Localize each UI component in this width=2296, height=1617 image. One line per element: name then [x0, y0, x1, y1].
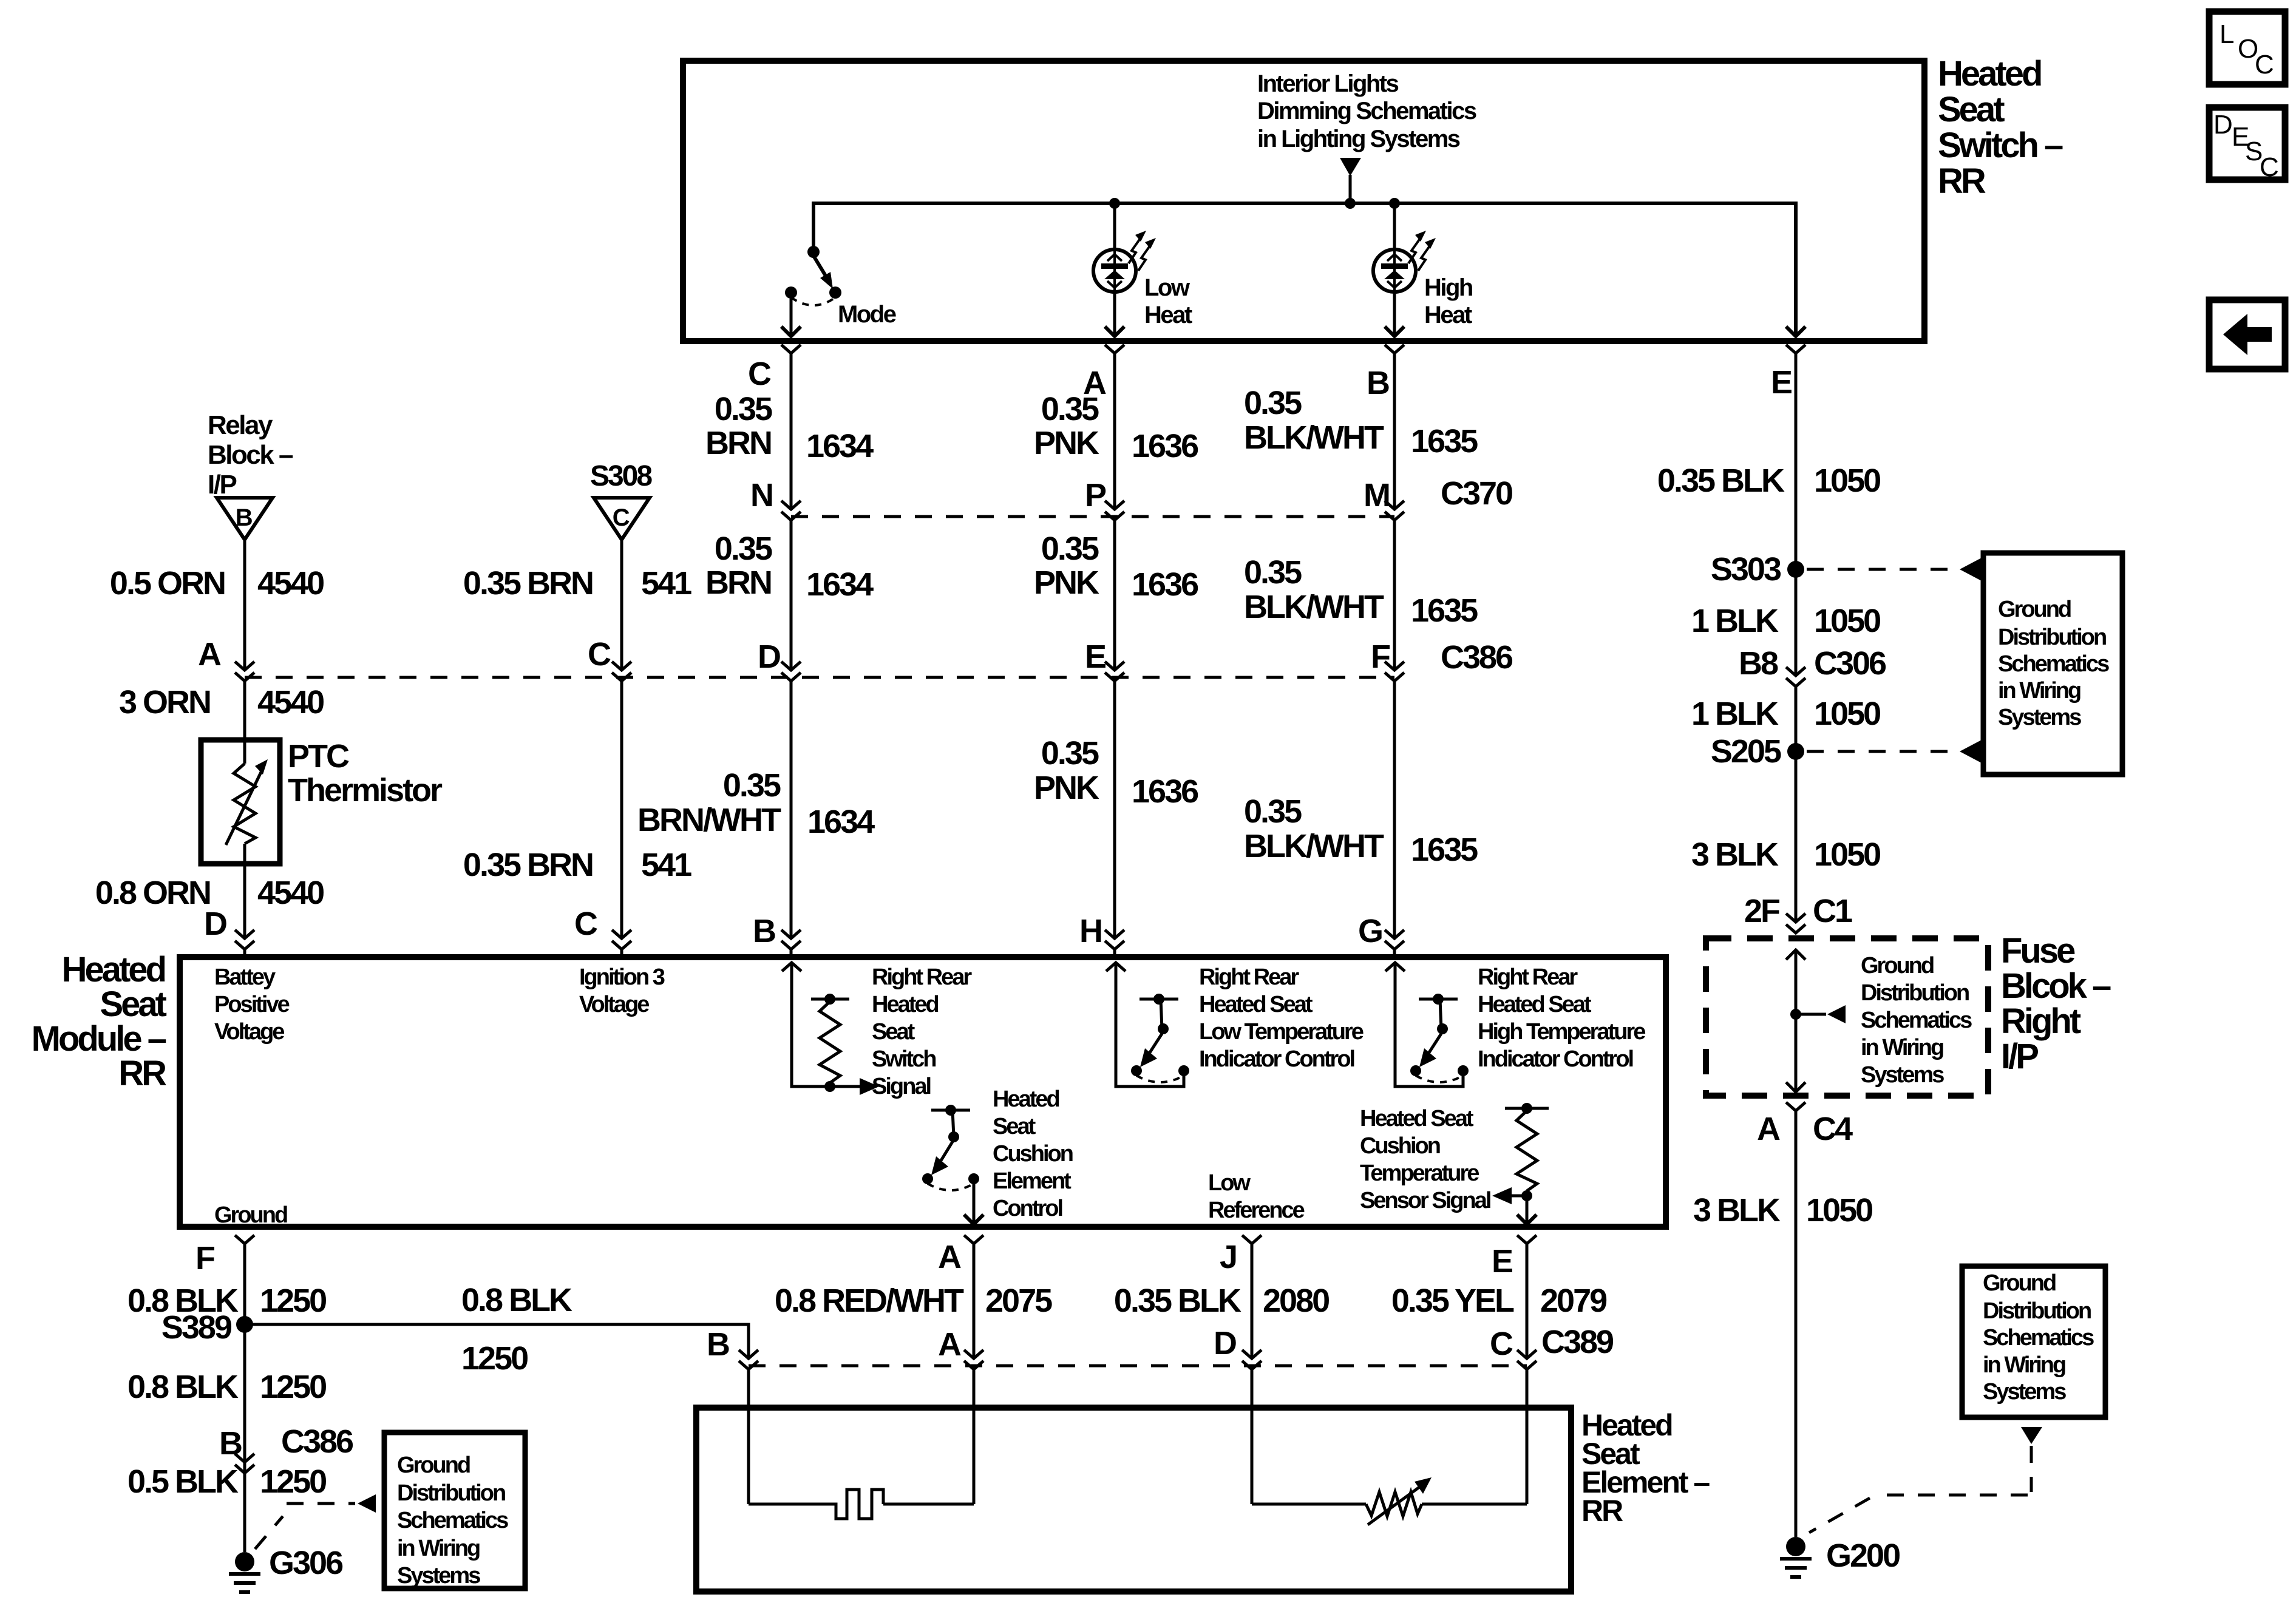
svg-text:Heated: Heated: [872, 992, 938, 1017]
label: Low Heat: [1144, 274, 1192, 328]
pin B8 label at C306: [1739, 645, 1886, 682]
label: 0.35 BLK / 1050: [1657, 463, 1880, 499]
svg-text:1050: 1050: [1814, 696, 1880, 732]
ground distribution schematics box lower left: [384, 1432, 525, 1588]
switch: cushion element control: [922, 1105, 979, 1190]
connector C386 pin F: [1385, 662, 1404, 681]
svg-text:Right Rear: Right Rear: [872, 964, 972, 990]
label: Relay Block - I/P: [208, 410, 293, 500]
wire: element control to pin A with arrow: [964, 1179, 983, 1224]
svg-text:D: D: [758, 639, 780, 675]
svg-text:0.35: 0.35: [1041, 531, 1099, 567]
svg-text:0.35 BLK: 0.35 BLK: [1114, 1283, 1241, 1319]
svg-text:1250: 1250: [260, 1463, 326, 1500]
svg-text:Heated Seat: Heated Seat: [1360, 1106, 1474, 1131]
svg-text:Heat: Heat: [1144, 302, 1192, 328]
svg-text:BLK/WHT: BLK/WHT: [1244, 589, 1384, 625]
dashed reference from S205: [1807, 740, 1982, 763]
label: 0.35 PNK / 1636: [1034, 735, 1198, 810]
svg-text:S303: S303: [1711, 551, 1781, 588]
splice S308 off-page triangle pin C: [594, 498, 650, 540]
svg-text:S308: S308: [590, 460, 652, 492]
dashed reference from G306: [255, 1494, 376, 1549]
svg-text:Seat: Seat: [100, 985, 166, 1024]
label: 3 ORN / 4540: [119, 684, 324, 720]
svg-text:C386: C386: [1441, 639, 1513, 676]
svg-text:G: G: [1358, 913, 1382, 949]
svg-text:in Wiring: in Wiring: [1998, 678, 2080, 703]
label: 0.5 BLK / 1250: [127, 1463, 326, 1500]
label: 0.35 BRN / 1634: [705, 391, 874, 464]
label: 0.35 PNK / 1636: [1034, 391, 1198, 464]
heating element symbol: [749, 1490, 883, 1519]
svg-text:Positive: Positive: [214, 992, 290, 1017]
wire: 0.35 BLK 1050 (E to S303): [1795, 353, 1798, 569]
svg-text:Indicator Control: Indicator Control: [1199, 1046, 1354, 1072]
svg-text:Cushion: Cushion: [993, 1141, 1073, 1167]
wire: 0.8 BLK 1250 to element B: [245, 1324, 749, 1357]
svg-text:PTC: PTC: [288, 738, 349, 775]
connector module pin B: [781, 930, 801, 957]
svg-text:RR: RR: [1938, 161, 1986, 201]
svg-text:0.35: 0.35: [715, 391, 772, 427]
svg-text:Right Rear: Right Rear: [1478, 964, 1578, 990]
svg-text:Distribution: Distribution: [1861, 980, 1969, 1006]
svg-text:3 BLK: 3 BLK: [1693, 1192, 1781, 1229]
pin B fork below switch box: [1385, 345, 1404, 353]
svg-text:Module –: Module –: [32, 1019, 166, 1059]
svg-text:0.35: 0.35: [1041, 735, 1099, 771]
svg-text:1050: 1050: [1814, 463, 1880, 499]
PTC thermistor box: [201, 740, 280, 864]
svg-text:Systems: Systems: [1998, 705, 2081, 730]
wire: 0.35 BRN/WHT 1634 (D to B): [790, 681, 793, 938]
svg-text:2075: 2075: [985, 1283, 1052, 1319]
svg-text:0.35 BLK: 0.35 BLK: [1657, 463, 1785, 499]
svg-text:Heat: Heat: [1424, 302, 1472, 328]
svg-text:Seat: Seat: [993, 1114, 1036, 1139]
mode switch contact left: [785, 286, 797, 299]
wire: element left circuit: [749, 1408, 974, 1504]
wire: 0.35 PNK 1636 (E to H): [1113, 681, 1116, 938]
connector C386 dashed line: [245, 676, 1394, 679]
connector C4 fork below fuse block: [1786, 1102, 1805, 1537]
pin C fork below switch box: [781, 345, 801, 353]
wire: 0.35 BRN/WHT 1634 label / 0.35 BRN 541 lower: [620, 681, 623, 938]
pin E fork below module: [1517, 1235, 1537, 1357]
LED high heat light rays: [1408, 231, 1436, 271]
svg-text:Seat: Seat: [1938, 90, 2005, 129]
svg-text:4540: 4540: [257, 875, 324, 911]
label: Low Reference: [1208, 1170, 1305, 1223]
connector module pin G: [1385, 930, 1404, 957]
svg-text:Voltage: Voltage: [579, 992, 649, 1017]
svg-text:4540: 4540: [257, 684, 324, 720]
pin F fork below module: [235, 1235, 254, 1552]
svg-text:Ground: Ground: [214, 1202, 287, 1228]
svg-text:RR: RR: [118, 1054, 166, 1093]
wire: 0.35 PNK 1636 (P to E): [1113, 520, 1116, 670]
LED high heat: [1373, 203, 1416, 336]
svg-text:J: J: [1220, 1239, 1236, 1275]
svg-text:Ground: Ground: [397, 1453, 470, 1478]
arrow: sensor signal pointer: [1492, 1187, 1527, 1204]
svg-text:1250: 1250: [461, 1340, 528, 1377]
heated seat switch RR box: [683, 61, 1924, 341]
svg-text:Interior Lights: Interior Lights: [1257, 70, 1399, 97]
heated seat module RR box: [180, 957, 1666, 1227]
dashed reference to G200: [1809, 1446, 2031, 1533]
label: 1 BLK / 1050: [1691, 603, 1880, 639]
svg-text:Distribution: Distribution: [1998, 625, 2106, 650]
svg-text:BLK/WHT: BLK/WHT: [1244, 828, 1384, 864]
svg-text:High: High: [1424, 274, 1472, 301]
svg-text:1 BLK: 1 BLK: [1691, 603, 1779, 639]
svg-text:C: C: [613, 504, 630, 531]
relay block off-page triangle pin B: [217, 498, 273, 540]
svg-text:BRN/WHT: BRN/WHT: [637, 802, 781, 838]
svg-text:G200: G200: [1826, 1537, 1900, 1574]
svg-text:C: C: [748, 356, 771, 392]
label: 0.5 ORN / 4540: [110, 565, 324, 602]
label: 0.35 BLK/WHT / 1635: [1244, 385, 1478, 459]
DESC legend box: [2209, 107, 2285, 182]
svg-text:0.5 ORN: 0.5 ORN: [110, 565, 225, 602]
svg-text:1050: 1050: [1814, 836, 1880, 873]
wire: switch internal bus: [813, 203, 1796, 335]
svg-text:1050: 1050: [1814, 603, 1880, 639]
svg-text:PNK: PNK: [1034, 564, 1099, 601]
label: 0.35 BRN/WHT / 1634: [637, 767, 875, 840]
svg-text:Dimming Schematics: Dimming Schematics: [1257, 98, 1476, 124]
splice S205: [1711, 733, 1804, 770]
label: 0.8 BLK / 1250 horizontal: [461, 1282, 572, 1377]
svg-text:Thermistor: Thermistor: [288, 772, 443, 808]
svg-text:B: B: [236, 504, 253, 531]
svg-text:Schematics: Schematics: [397, 1508, 508, 1533]
label: 0.35 BLK/WHT / 1635: [1244, 554, 1478, 629]
svg-text:Ground: Ground: [1983, 1270, 2056, 1296]
svg-text:Schematics: Schematics: [1998, 651, 2109, 677]
svg-text:C: C: [588, 636, 611, 673]
wire: 0.35 BRN 541 upper: [620, 540, 623, 670]
node: fuse block junction: [1790, 1005, 1846, 1023]
svg-text:Heated Seat: Heated Seat: [1199, 992, 1313, 1017]
mode switch contact right: [829, 286, 841, 299]
connector C389 pin D: [1242, 1350, 1262, 1408]
wire: 0.35 BLK/WHT 1635 (B to C370): [1393, 353, 1396, 509]
svg-text:Block –: Block –: [208, 440, 293, 470]
pin J fork below module: [1242, 1235, 1262, 1357]
switch: high temperature indicator control: [1410, 994, 1469, 1082]
svg-text:C1: C1: [1813, 893, 1852, 929]
svg-text:0.35: 0.35: [1041, 391, 1099, 427]
svg-text:D: D: [2213, 110, 2233, 140]
heated seat element RR box: [696, 1408, 1571, 1592]
svg-text:Heated: Heated: [62, 950, 165, 989]
svg-text:F: F: [195, 1240, 215, 1276]
svg-text:F: F: [1371, 639, 1390, 675]
svg-text:2080: 2080: [1263, 1283, 1329, 1319]
svg-text:1635: 1635: [1411, 592, 1478, 629]
svg-text:541: 541: [641, 847, 691, 883]
pin A fork below module: [964, 1235, 983, 1357]
svg-text:E: E: [1492, 1243, 1512, 1280]
svg-text:1635: 1635: [1411, 423, 1478, 459]
svg-text:0.35 YEL: 0.35 YEL: [1391, 1283, 1514, 1319]
label: 3 BLK / 1050 lower: [1693, 1192, 1872, 1229]
wire: 3 BLK 1050 (S205 to C1): [1795, 751, 1798, 922]
connector C386 pin E: [1105, 662, 1124, 681]
label: 0.35 BRN / 1634: [705, 531, 874, 603]
splice S389: [161, 1309, 253, 1346]
connector C370 dashed line: [791, 515, 1394, 518]
svg-text:Indicator Control: Indicator Control: [1478, 1046, 1633, 1072]
wire: inside fuse block with arrows: [1786, 950, 1805, 1092]
label: Ground Distribution Schematics in Wiring Systems (fuse box): [1861, 953, 1972, 1088]
svg-text:Heated: Heated: [993, 1086, 1059, 1112]
connector module pin C: [612, 930, 631, 957]
connector C389 pin C: [1517, 1350, 1537, 1408]
svg-text:Systems: Systems: [397, 1563, 480, 1588]
svg-text:BLK/WHT: BLK/WHT: [1244, 419, 1384, 456]
svg-text:2F: 2F: [1744, 893, 1780, 929]
svg-text:Systems: Systems: [1861, 1062, 1944, 1088]
wire: 0.8 ORN 4540: [243, 844, 246, 938]
svg-text:Switch –: Switch –: [1938, 126, 2063, 165]
label: 0.35 BRN / 541: [463, 565, 691, 602]
label: 0.8 BLK / 1250 lower: [127, 1369, 326, 1405]
wire: pin G internal with up arrow: [1385, 963, 1463, 1086]
wire: element right circuit: [1252, 1408, 1527, 1504]
svg-text:in Wiring: in Wiring: [397, 1536, 480, 1561]
pin 2F label at C1: [1744, 893, 1852, 929]
svg-text:High Temperature: High Temperature: [1478, 1019, 1645, 1045]
switch: low temperature indicator control: [1131, 994, 1189, 1082]
svg-text:A: A: [198, 636, 221, 673]
svg-text:Switch: Switch: [872, 1046, 936, 1072]
LED low heat light rays: [1129, 231, 1156, 271]
wire: sensor to pin E with arrow: [1517, 1196, 1537, 1224]
svg-text:H: H: [1079, 913, 1101, 949]
wire: 0.35 BRN 1634 (C to C370): [790, 353, 793, 509]
svg-text:Right: Right: [2001, 1002, 2081, 1041]
wire: pin B internal with up arrow: [782, 963, 861, 1086]
node: bus junction high heat: [1389, 198, 1400, 209]
label: Interior Lights Dimming Schematics in Lighting Systems: [1257, 70, 1476, 152]
svg-text:C370: C370: [1441, 475, 1512, 512]
svg-text:Ground: Ground: [1998, 597, 2071, 622]
svg-text:C: C: [2255, 50, 2274, 80]
svg-text:1050: 1050: [1806, 1192, 1872, 1229]
connector C370 pin M: [1385, 501, 1404, 520]
label: PTC Thermistor: [288, 738, 443, 808]
svg-text:B: B: [707, 1326, 729, 1363]
svg-text:D: D: [204, 906, 226, 942]
svg-text:N: N: [750, 477, 772, 514]
svg-text:A: A: [1757, 1111, 1780, 1147]
svg-text:0.35: 0.35: [723, 767, 781, 804]
label: 0.8 BLK / 1250 upper: [127, 1283, 326, 1319]
svg-text:1635: 1635: [1411, 832, 1478, 868]
svg-text:Cushion: Cushion: [1360, 1133, 1440, 1159]
connector module pin H: [1105, 930, 1124, 957]
label: 0.8 ORN / 4540: [95, 875, 324, 911]
svg-text:Relay: Relay: [208, 410, 273, 440]
svg-text:I/P: I/P: [208, 470, 236, 500]
variable resistor: element thermistor: [1366, 1477, 1432, 1525]
svg-text:Distribution: Distribution: [1983, 1298, 2091, 1324]
svg-text:Seat: Seat: [872, 1019, 915, 1045]
svg-text:0.35 BRN: 0.35 BRN: [463, 565, 593, 602]
svg-text:PNK: PNK: [1034, 425, 1099, 461]
label: Right Rear Heated Seat Switch Signal: [872, 964, 972, 1099]
svg-text:1634: 1634: [807, 804, 875, 840]
svg-text:E: E: [1771, 364, 1792, 401]
svg-text:Schematics: Schematics: [1861, 1008, 1972, 1033]
connector C386 pin D: [781, 662, 801, 681]
svg-text:1634: 1634: [806, 428, 874, 464]
svg-text:Blcok –: Blcok –: [2001, 966, 2111, 1006]
label: 0.35 BLK / 2080: [1114, 1283, 1329, 1319]
resistor: cushion temperature sensor: [1505, 1103, 1549, 1201]
connector C389 pin B: [739, 1350, 758, 1408]
svg-text:0.35: 0.35: [715, 531, 772, 567]
svg-text:Right Rear: Right Rear: [1199, 964, 1299, 990]
svg-text:in Wiring: in Wiring: [1861, 1035, 1943, 1060]
svg-text:Fuse: Fuse: [2001, 931, 2075, 971]
label: Right Rear Heated Seat High Temperature Indicator Control: [1478, 964, 1645, 1072]
label: Right Rear Heated Seat Low Temperature Indicator Control: [1199, 964, 1364, 1072]
label: 1 BLK / 1050: [1691, 696, 1880, 732]
svg-text:3 ORN: 3 ORN: [119, 684, 210, 720]
svg-text:C: C: [1490, 1326, 1513, 1362]
svg-text:Heated Seat: Heated Seat: [1478, 992, 1592, 1017]
resistor: heated seat switch signal: [811, 994, 849, 1092]
ground G306: [229, 1545, 343, 1592]
svg-text:Ignition 3: Ignition 3: [579, 964, 665, 990]
svg-text:Reference: Reference: [1208, 1198, 1305, 1223]
wire: 0.35 BLK/WHT 1635 (M to F): [1393, 520, 1396, 670]
mode switch pivot: [807, 246, 820, 258]
svg-text:1250: 1250: [260, 1283, 326, 1319]
svg-text:Low: Low: [1208, 1170, 1251, 1196]
label: Heated Seat Switch - RR: [1938, 54, 2063, 201]
label: 0.35 PNK / 1636: [1034, 531, 1198, 603]
svg-text:Control: Control: [993, 1196, 1062, 1221]
svg-text:A: A: [938, 1326, 961, 1363]
svg-text:M: M: [1364, 477, 1389, 514]
svg-text:Voltage: Voltage: [214, 1019, 284, 1045]
svg-text:0.35: 0.35: [1244, 793, 1302, 830]
connector C370 pin P: [1105, 501, 1124, 520]
svg-text:C: C: [574, 906, 597, 942]
svg-text:Low: Low: [1144, 274, 1190, 301]
wire: 0.35 PNK 1636 (A to C370): [1113, 353, 1116, 509]
pin E fork below switch box: [1786, 345, 1805, 353]
svg-text:PNK: PNK: [1034, 770, 1099, 806]
svg-text:Schematics: Schematics: [1983, 1325, 2094, 1351]
splice S303: [1711, 551, 1804, 588]
pin A fork below switch box: [1105, 345, 1124, 353]
connector C386 pin C: [612, 662, 631, 681]
svg-text:0.8 RED/WHT: 0.8 RED/WHT: [775, 1283, 964, 1319]
wire: pin H internal with up arrow: [1106, 963, 1184, 1086]
fuse block right I/P dashed box: [1706, 938, 1988, 1096]
connector C386 pin A: [235, 662, 254, 681]
node: bus junction at dimmer: [1345, 198, 1356, 209]
label: Heated Seat Module - RR: [32, 950, 167, 1093]
svg-text:0.5 BLK: 0.5 BLK: [127, 1463, 239, 1500]
wire: bus down to pin E arrow: [1786, 327, 1805, 336]
svg-text:Heated: Heated: [1938, 54, 2041, 93]
svg-text:C389: C389: [1541, 1324, 1614, 1360]
label: Battey Positive Voltage: [214, 964, 290, 1045]
svg-text:Battey: Battey: [214, 964, 276, 990]
wire: 0.5 ORN 4540: [243, 540, 246, 670]
svg-text:D: D: [1214, 1325, 1236, 1361]
ground distribution schematics box right: [1983, 553, 2122, 775]
svg-text:Distribution: Distribution: [397, 1480, 505, 1506]
svg-text:A: A: [938, 1239, 961, 1275]
svg-text:0.8 ORN: 0.8 ORN: [95, 875, 210, 911]
back arrow box: [2209, 300, 2285, 369]
svg-text:3 BLK: 3 BLK: [1691, 836, 1779, 873]
connector C386 inline on ground wire: [235, 1454, 254, 1473]
label: Ignition 3 Voltage: [579, 964, 665, 1017]
svg-text:C386: C386: [281, 1423, 353, 1460]
svg-text:0.8 BLK: 0.8 BLK: [127, 1369, 239, 1405]
svg-text:1636: 1636: [1132, 773, 1198, 810]
svg-text:Low Temperature: Low Temperature: [1199, 1019, 1364, 1045]
ground distribution schematics box lower right: [1962, 1266, 2105, 1417]
svg-text:BRN: BRN: [705, 564, 771, 601]
svg-text:1636: 1636: [1132, 428, 1198, 464]
connector C306 inline: [1786, 667, 1805, 686]
svg-text:0.35 BRN: 0.35 BRN: [463, 847, 593, 883]
svg-text:Signal: Signal: [872, 1074, 930, 1099]
svg-text:S389: S389: [161, 1309, 232, 1346]
arrow: switch signal pointer: [860, 1078, 879, 1095]
label: Heated Seat Element - RR: [1581, 1408, 1710, 1528]
off-page triangle to dimming schematic: [1340, 158, 1361, 203]
svg-text:Systems: Systems: [1983, 1379, 2066, 1405]
svg-text:Temperature: Temperature: [1360, 1161, 1479, 1186]
label: 0.35 BLK/WHT / 1635: [1244, 793, 1478, 868]
svg-text:E: E: [1085, 639, 1106, 675]
svg-text:B: B: [753, 913, 775, 949]
svg-text:541: 541: [641, 565, 691, 602]
svg-text:Sensor Signal: Sensor Signal: [1360, 1188, 1490, 1213]
svg-text:4540: 4540: [257, 565, 324, 602]
svg-text:1 BLK: 1 BLK: [1691, 696, 1779, 732]
wire: 1 BLK 1050 (S303 to C306): [1795, 569, 1798, 676]
connector C370 pin N: [781, 501, 801, 520]
label: 3 BLK / 1050: [1691, 836, 1880, 873]
wire: 1 BLK 1050 (C306 to S205): [1795, 686, 1798, 751]
label: Heated Seat Cushion Element Control: [993, 1086, 1073, 1221]
dashed reference from S303: [1807, 558, 1982, 581]
off-page triangle below box: [2021, 1427, 2042, 1444]
svg-text:1634: 1634: [806, 566, 874, 603]
LOC legend box: [2209, 12, 2285, 84]
label: High Heat: [1424, 274, 1472, 328]
ground G200: [1780, 1537, 1900, 1577]
LED low heat: [1093, 203, 1136, 336]
svg-text:C: C: [2260, 152, 2279, 182]
wire: 0.35 BRN 1634 (N to D): [790, 520, 793, 670]
svg-text:0.8 BLK: 0.8 BLK: [461, 1282, 572, 1318]
